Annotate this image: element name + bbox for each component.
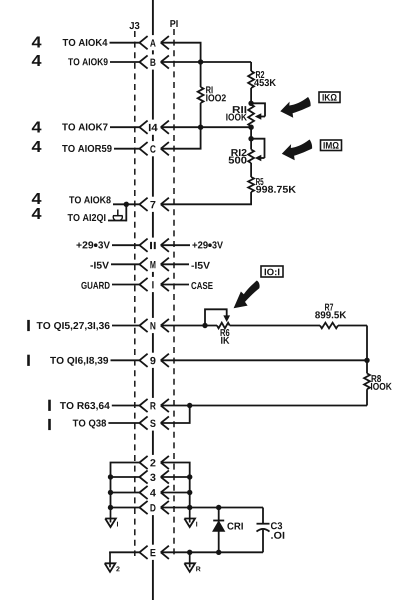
ground symbol 1 (left bus) bbox=[105, 508, 118, 528]
connector pin N (J3/P1 contacts) bbox=[140, 319, 169, 332]
wire R7 down right column to row 9 bbox=[366, 326, 368, 361]
wire pin E left lead to ground 2 bbox=[110, 552, 140, 553]
resistor R8 bbox=[364, 360, 370, 405]
value label 100K bbox=[226, 114, 247, 121]
callout box 10:1 bbox=[261, 266, 283, 277]
wire pin 14 row (R11 bottom to R12 top) bbox=[161, 126, 251, 128]
junction R6 left terminal / wiper takeoff bbox=[202, 323, 207, 328]
wire pin S up to row R node bbox=[161, 406, 190, 424]
resistor R5 bbox=[161, 177, 254, 204]
wire R6 to R7 bbox=[230, 325, 320, 327]
wire pin 14 node down to R12 top bbox=[250, 127, 252, 139]
value label 899.5K bbox=[315, 311, 346, 318]
label C3 bbox=[271, 522, 282, 529]
wire TO AIOK4 lead bbox=[110, 42, 140, 44]
wire TO AIOK7 lead bbox=[110, 126, 140, 128]
label R5 bbox=[256, 178, 263, 185]
quantity label 4 (row C) bbox=[32, 141, 42, 152]
connector pin R (J3/P1 contacts) bbox=[140, 399, 169, 412]
label TO R63,64 bbox=[60, 402, 110, 411]
wire TO A12Q1 branch to pin 7 node bbox=[108, 204, 126, 221]
junction R1 bottom / pin 14 row bbox=[198, 125, 203, 130]
resistor R2 bbox=[248, 62, 254, 103]
wire TO AIOR59 lead bbox=[114, 148, 140, 150]
wire pin N lead to R6 bbox=[161, 325, 217, 327]
label R2 bbox=[256, 71, 264, 78]
connector pin B (J3/P1 contacts) bbox=[140, 55, 169, 68]
junction pin D left bbox=[108, 505, 113, 510]
resistor R7 bbox=[320, 323, 367, 329]
junction pin 3 left bbox=[108, 474, 113, 479]
junction pin D right bbox=[187, 505, 192, 510]
connector pin I4 (J3/P1 contacts) bbox=[140, 121, 169, 134]
quantity label 4 (row B) bbox=[32, 55, 42, 66]
quantity label 1 (row N) bbox=[27, 320, 30, 331]
junction row 9 / R8 top bbox=[364, 358, 369, 363]
connector pin 4 (J3/P1 contacts) bbox=[140, 486, 169, 499]
wire pin 4 right lead bbox=[161, 492, 190, 494]
junction pin E / ground R bbox=[187, 550, 192, 555]
connector pin 9 (J3/P1 contacts) bbox=[140, 354, 169, 367]
callout box 1K-ohm bbox=[319, 92, 340, 103]
connector mating centerline (J3/P1 interface) bbox=[152, 0, 154, 600]
connector pin 3 (J3/P1 contacts) bbox=[140, 470, 169, 483]
junction pin E / CR1 bottom bbox=[216, 550, 221, 555]
value label 1K bbox=[221, 337, 229, 344]
potentiometer R6 (wiper tied to left terminal) bbox=[205, 309, 230, 328]
wire pin 3 left lead bbox=[111, 476, 140, 478]
wire pin C row up to pin 14 node bbox=[161, 127, 201, 149]
wire TO Q38 lead bbox=[108, 422, 139, 424]
junction R11 bottom / pin 14 row bbox=[248, 125, 253, 130]
connector P1 boundary (dashed line) bbox=[173, 29, 175, 556]
value label 100K bbox=[371, 383, 392, 390]
junction node on pin 7 lead bbox=[124, 202, 129, 207]
value label .01 bbox=[271, 532, 284, 539]
connector pin E (J3/P1 contacts) bbox=[140, 546, 169, 559]
wire pin M to -I5V bbox=[161, 263, 189, 265]
chassis frame symbol on A12Q1 wire bbox=[113, 210, 123, 220]
junction pin 4 left bbox=[108, 490, 113, 495]
label TO Q38 bbox=[73, 420, 106, 429]
wire left bus (pins 2-3-4-D common) bbox=[110, 463, 112, 509]
quantity label 4 (row 7) bbox=[32, 193, 42, 204]
resistor R1 bbox=[198, 62, 204, 127]
label TO QI5,27,3I,36 bbox=[37, 322, 110, 331]
wire row R (pin R to R8 bottom) bbox=[161, 405, 367, 407]
wire pin B row to R2 branch bbox=[161, 61, 251, 63]
label -I5V (right) bbox=[191, 262, 210, 269]
junction pin R / pin S branch bbox=[187, 403, 192, 408]
wire TO QI5,27,3I,36 lead bbox=[112, 325, 140, 327]
callout arrow to R12 (1M-ohm adjustment) bbox=[282, 140, 312, 161]
label R1 bbox=[206, 86, 212, 93]
wire TO A10K8 lead bbox=[113, 203, 140, 205]
callout arrow to R11 (1K-ohm adjustment) bbox=[280, 97, 310, 118]
label R6 bbox=[221, 329, 230, 336]
value label 998.75K bbox=[256, 186, 296, 193]
wire TO AIOK9 lead bbox=[110, 61, 140, 63]
junction CR1 top (pin D net) bbox=[216, 505, 221, 510]
wire GUARD lead bbox=[112, 284, 140, 286]
ground symbol 1 (right bus) bbox=[184, 508, 197, 528]
label R7 bbox=[325, 304, 333, 311]
label CASE (right) bbox=[191, 282, 212, 289]
wire TO QI6,I8,39 lead bbox=[111, 359, 140, 361]
label TO QI6,I8,39 bbox=[50, 357, 108, 366]
ground symbol 2 (pin E left) bbox=[105, 552, 120, 572]
wire TO R63,64 lead bbox=[112, 405, 140, 407]
label TO AIOK7 bbox=[62, 123, 107, 130]
wire pin 4 left lead bbox=[111, 492, 140, 494]
connector pin I (J3/P1 contacts) bbox=[140, 278, 169, 291]
wire right bus (pins 2-3-4-D common) bbox=[189, 463, 191, 509]
label TO AIOK4 bbox=[63, 39, 108, 46]
connector pin 7 (J3/P1 contacts) bbox=[140, 198, 169, 211]
wire pin 2 left lead to left bus bbox=[111, 462, 140, 464]
wire pin A to pin B row junction bbox=[161, 43, 201, 62]
label GUARD (left) bbox=[81, 282, 109, 289]
potentiometer R11 (wiper tied to top terminal) bbox=[248, 101, 265, 127]
wire pin 3 right lead bbox=[161, 476, 190, 478]
wire pin II to +29.3V bbox=[161, 244, 190, 246]
label +29.3V (right) bbox=[192, 241, 223, 248]
label TO A10K8 bbox=[69, 196, 111, 203]
label R11 bbox=[233, 106, 246, 113]
wire pin 9 lead to right column bbox=[161, 359, 367, 361]
wire -I5V lead bbox=[111, 263, 140, 265]
wire pin I to CASE bbox=[161, 284, 189, 286]
wire pin 2 right lead to right bus bbox=[161, 462, 190, 464]
callout arrow to R6 (10:1 adjustment) bbox=[234, 281, 260, 309]
value label 500 bbox=[229, 157, 247, 164]
label R12 bbox=[231, 149, 246, 156]
connector J3 boundary (dashed line) bbox=[134, 31, 136, 556]
connector pin C (J3/P1 contacts) bbox=[140, 142, 169, 155]
quantity label 1 (row 9) bbox=[27, 355, 30, 366]
ground symbol R (pin E net) bbox=[184, 552, 200, 572]
connector J3 designator label bbox=[129, 22, 139, 29]
quantity label 4 (row A12Q1) bbox=[32, 208, 42, 219]
value label 453K bbox=[254, 79, 276, 86]
label TO AIOK9 bbox=[68, 58, 108, 65]
value label 1002 bbox=[206, 94, 226, 101]
junction pin 3 right bbox=[187, 474, 192, 479]
quantity label 4 (row I4) bbox=[32, 121, 42, 132]
label +29.3V (left) bbox=[76, 241, 109, 248]
label TO A12Q1 bbox=[68, 214, 106, 223]
label CR1 bbox=[227, 523, 242, 530]
callout box 1M-ohm bbox=[321, 140, 342, 151]
connector pin M (J3/P1 contacts) bbox=[140, 258, 169, 271]
junction pin 4 right bbox=[187, 490, 192, 495]
connector pin S (J3/P1 contacts) bbox=[140, 416, 169, 429]
connector pin D (J3/P1 contacts) bbox=[140, 501, 169, 514]
connector pin 2 (J3/P1 contacts) bbox=[140, 456, 169, 469]
junction pin B / R1 top bbox=[198, 59, 203, 64]
quantity label 4 (row A) bbox=[32, 36, 42, 47]
wire pin D left lead bbox=[111, 507, 140, 509]
quantity label 1 (row S) bbox=[48, 419, 51, 430]
label TO AIOR59 bbox=[62, 145, 112, 152]
wire pin D right lead bbox=[161, 507, 190, 509]
label -I5V (left) bbox=[90, 262, 109, 269]
diode CR1 bbox=[213, 508, 225, 553]
connector P1 designator label bbox=[170, 20, 177, 27]
capacitor C3 bbox=[257, 508, 270, 553]
quantity label 1 (row R) bbox=[48, 400, 51, 411]
potentiometer R12 (wiper tied to top terminal) bbox=[248, 136, 264, 177]
wire pin D node to C3 branch bbox=[190, 507, 263, 509]
label R8 bbox=[372, 375, 382, 382]
connector pin A (J3/P1 contacts) bbox=[140, 36, 169, 49]
wire +29.3V lead bbox=[112, 244, 140, 246]
connector pin II (J3/P1 contacts) bbox=[140, 239, 169, 252]
wire pin E right lead (to CR1/C3 bottoms) bbox=[161, 551, 263, 553]
